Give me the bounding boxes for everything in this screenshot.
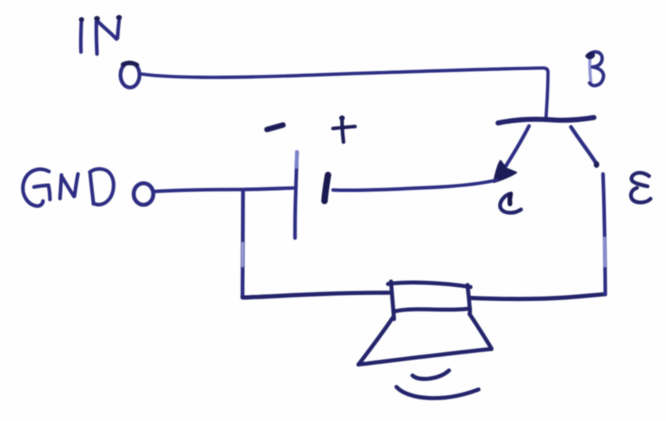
wire bottom left to speaker — [243, 293, 390, 298]
sound waves — [397, 371, 479, 399]
label GND — [23, 169, 114, 206]
label plus — [333, 115, 355, 142]
wire GND to battery — [154, 188, 293, 192]
wire GND node down — [241, 190, 245, 297]
transistor Q1 base bar — [498, 118, 594, 124]
speaker LS1 — [359, 282, 492, 365]
wire emitter down — [603, 174, 605, 295]
wire IN to transistor base — [141, 68, 548, 118]
battery positive plate — [325, 175, 329, 201]
wire speaker to emitter corner — [471, 294, 606, 299]
label B — [585, 51, 604, 86]
transistor Q1 emitter lead — [571, 127, 599, 168]
label minus — [267, 125, 283, 130]
label E — [631, 173, 651, 203]
battery negative plate — [295, 152, 297, 238]
label IN — [79, 15, 122, 54]
label c (small cursive letter at arrow) — [500, 194, 521, 213]
transistor Q1 left lead with arrow — [494, 126, 529, 182]
terminal GND — [134, 183, 154, 205]
terminal IN — [121, 63, 140, 88]
wire battery to transistor arrow — [333, 180, 497, 190]
